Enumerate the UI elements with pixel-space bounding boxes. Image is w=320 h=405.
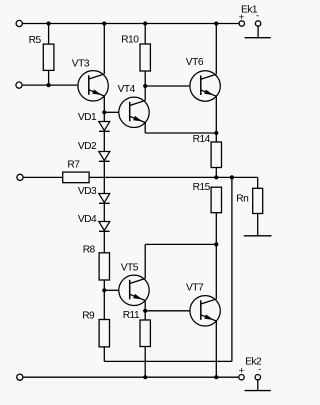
terminal output-4 [17,374,23,380]
resistor Rn [253,188,263,213]
wire Ek1 minus to ground [257,26,259,38]
wire VT5 collector up [144,244,146,278]
diode VD2 [99,152,110,162]
svg-text:+: + [239,365,245,376]
node bottom rail / VT7 emitter [214,375,218,379]
svg-text:VT5: VT5 [121,262,139,273]
label R8 [83,244,96,255]
node bottom rail / R11 [143,375,147,379]
label VT3 [72,59,90,70]
wire top positive rail [22,23,239,25]
svg-text:+: + [239,12,245,23]
terminal input-1 [16,20,22,26]
resistor R5 [43,44,54,70]
battery Ek1 terminal + [239,21,244,26]
wire R15 to VT7 collector [215,213,217,299]
ground Ek2 [245,390,271,392]
svg-text:-: - [256,11,259,22]
node VT5 collector tee [214,242,218,246]
transistor VT5 [119,275,149,305]
battery Ek2 terminal - [255,375,260,380]
node output line / down link [230,175,234,179]
label Ek2 [245,357,262,368]
node VT6 base tee [143,84,147,88]
wire Rn to ground [257,214,259,236]
label Ek2 plus [239,365,245,376]
node B R14 top [214,131,218,135]
wire VT5 collector to R15 line [145,243,216,245]
transistor VT4 [119,97,149,127]
label VT5 [121,262,139,273]
resistor R15 [211,187,221,213]
wire input-2 to VT3 base [22,84,78,86]
wire output line down to Rn [257,177,259,188]
wire Ek2 minus to ground [257,380,259,391]
wire R9 to output down-link [104,360,232,362]
ground Ek1 [245,37,271,39]
ground Rn [244,235,272,237]
label VD2 [78,141,97,152]
wire top rail to R10 [144,24,146,45]
node top rail / R5 [47,21,51,25]
node input wire / R5 [47,83,51,87]
label VD4 [78,214,97,225]
resistor R10 [140,44,150,71]
svg-text:R14: R14 [193,134,211,145]
terminal input-2 [16,82,22,88]
wire node B to R14 [215,133,217,142]
node top rail / VT3 collector [102,21,106,25]
wire input-3 to R7 [23,176,63,178]
label R10 [121,34,139,45]
battery Ek1 terminal - [255,21,260,26]
label Ek2 minus [258,364,261,375]
label VT7 [186,283,204,294]
wire top rail to R5 [48,24,50,45]
wire R14 to output line [215,168,217,178]
diode VD3 [99,194,110,204]
svg-text:VT3: VT3 [72,59,90,70]
label Rn [236,194,248,205]
label R14 [193,134,211,145]
wire VT6 collector to top rail [215,24,217,75]
svg-text:R11: R11 [123,310,140,321]
wire node A to VD1 [103,112,105,121]
wire R10 to VT4 collector [144,71,146,101]
wire VT5 emitter to node D [144,301,146,311]
svg-text:R15: R15 [193,182,211,193]
wire VT3 collector to top rail [103,24,105,75]
wire R8 to node C [103,280,105,290]
svg-text:R9: R9 [82,310,95,321]
wire VT6 emitter to node B [215,96,217,133]
label R7 [67,159,80,170]
wire node A to VT4 base [104,111,119,113]
node top rail / VT6 collector [214,21,218,25]
svg-text:R7: R7 [67,159,80,170]
transistor VT6 [190,71,220,101]
wire R5 to input wire [48,70,50,85]
label R11 [123,310,140,321]
resistor R9 [99,320,109,347]
resistor R8 [99,253,109,280]
node top rail / R10 [143,21,147,25]
label VD3 [78,186,97,197]
resistor R7 [63,172,89,183]
wire VD3 to VD4 [103,203,105,221]
resistor R11 [140,320,150,347]
label VD1 [78,112,97,123]
node A VT4 base / diode chain [102,110,106,114]
label Ek1 plus [239,12,245,23]
node output line / R15 [214,175,218,179]
svg-text:VD2: VD2 [78,141,97,152]
svg-text:-: - [258,364,261,375]
svg-text:VT6: VT6 [186,57,204,68]
svg-text:R10: R10 [121,34,139,45]
battery Ek2 terminal + [239,375,244,380]
wire VT3 emitter to node A [103,96,105,112]
svg-text:VD3: VD3 [78,186,97,197]
label VT4 [118,84,136,95]
wire VT7 emitter to bottom rail [215,321,217,377]
node C VT5 base [102,288,106,292]
wire VD1 to VD2 [103,131,105,151]
transistor VT3 [78,71,108,101]
label Ek1 [241,5,258,16]
resistor R14 [211,142,221,168]
svg-text:VT4: VT4 [118,84,136,95]
wire node to VT6 base [145,85,190,87]
wire R7 to Rn (output line) [89,176,258,178]
wire VD4 to R8 [103,231,105,253]
wire VT4 emitter to node B [145,132,216,134]
wire node C to VT5 base [104,289,119,291]
wire node D to VT7 base [145,310,190,312]
diode VD1 [99,122,110,132]
wire R9 down [103,347,105,362]
diode VD4 [99,222,110,232]
terminal input-3 [17,174,23,180]
label R9 [82,310,95,321]
svg-text:R5: R5 [29,35,42,46]
wire VD2 to VD3 (crosses output line) [103,161,105,193]
wire R11 to bottom rail [144,347,146,378]
svg-text:VT7: VT7 [186,283,204,294]
wire output down-link [231,177,233,361]
svg-text:VD4: VD4 [78,214,97,225]
svg-text:R8: R8 [83,244,96,255]
wire node D to R11 [144,311,146,320]
wire bottom rail [23,376,239,378]
label R15 [193,182,211,193]
wire node C to R9 [103,290,105,319]
svg-text:Rn: Rn [236,194,248,205]
wire VT4 emitter down [144,123,146,134]
transistor VT7 [190,296,220,326]
label Ek1 minus [256,11,259,22]
label VT6 [186,57,204,68]
svg-text:VD1: VD1 [78,112,97,123]
label R5 [29,35,42,46]
node D VT7 base / R11 [143,309,147,313]
